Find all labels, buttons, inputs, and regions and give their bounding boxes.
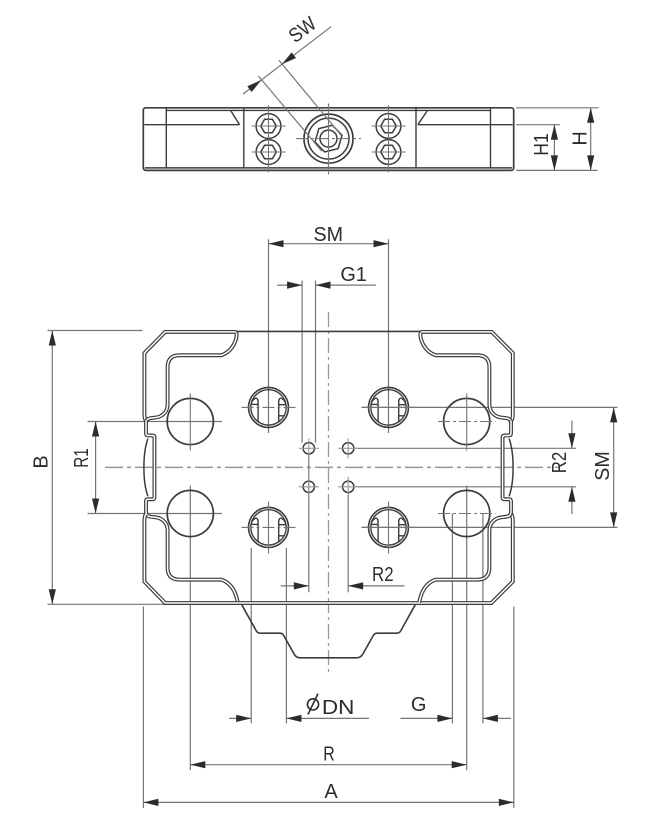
side view screw pair left — [256, 114, 281, 139]
crosshair top-left corner hole — [189, 393, 191, 450]
svg-text:R2: R2 — [372, 564, 394, 586]
ext line B bottom — [48, 603, 168, 605]
pilot hole bottom-right — [343, 481, 354, 492]
dimension G1 arrows — [287, 282, 302, 289]
side view vertical left boss edge — [243, 108, 245, 168]
pilot hole top-left — [303, 443, 314, 454]
svg-text:SM: SM — [314, 224, 344, 246]
svg-text:DN: DN — [322, 697, 355, 719]
plate inner contour top-right — [435, 355, 489, 404]
ext line DN left — [250, 548, 252, 724]
plate inner contour bottom-left — [168, 531, 222, 580]
side view vertical left block edge — [165, 108, 167, 168]
plate left slot arc — [144, 439, 148, 497]
ext line G right — [482, 514, 484, 724]
main vertical centerline — [328, 312, 330, 672]
dimension SW extension line 1 — [279, 60, 342, 135]
plate corner block top-right — [421, 332, 513, 421]
dimension SM top arrows — [269, 240, 284, 247]
plate S-curve bottom-right — [419, 580, 436, 603]
plate S-curve left-lower — [146, 512, 168, 531]
dimension SW line — [243, 27, 331, 94]
ext line SM right top — [362, 406, 618, 408]
svg-text:R: R — [323, 743, 335, 765]
side view plate outline — [143, 108, 513, 171]
svg-text:SM: SM — [592, 451, 614, 481]
mounting thread hole top-left — [249, 387, 289, 427]
ext line R2 bottom right — [347, 493, 349, 593]
side view inner bottom line — [145, 167, 512, 169]
pilot hole bottom-left — [303, 481, 314, 492]
dimension SM top line — [269, 243, 389, 245]
corner port hole bottom-left — [167, 490, 213, 536]
main horizontal centerline — [105, 466, 560, 468]
plate S-curve right-upper — [489, 404, 511, 423]
dimension H arrows — [587, 108, 594, 123]
ext line R1 top — [88, 421, 222, 423]
crosshair bottom-right corner hole — [438, 513, 496, 515]
dimension R2 right line — [571, 421, 573, 449]
side view left step chamfer — [231, 110, 240, 124]
dimension R2 right arrows — [568, 433, 575, 448]
dimension R2 bottom arrows — [294, 582, 309, 589]
ext line G1 right — [315, 281, 317, 443]
pilot hole top-right — [343, 443, 354, 454]
corner port hole top-right — [444, 398, 490, 444]
dimension SM right arrows — [610, 407, 617, 422]
plate top recess edge — [236, 330, 421, 332]
side view vertical right boss edge — [415, 108, 417, 168]
plate inner contour bottom-right — [435, 531, 489, 580]
ext line A right — [513, 607, 515, 808]
ext line G left — [451, 514, 453, 724]
ext line SM left column — [268, 239, 270, 433]
crosshair bottom-left thread hole — [268, 502, 270, 554]
crosshair top-right corner hole — [466, 393, 468, 450]
mounting thread hole bottom-left — [249, 507, 289, 547]
dimension G arrows — [437, 715, 452, 722]
plate S-curve bottom-left — [221, 580, 238, 603]
ext line R left — [189, 486, 191, 771]
corner port hole bottom-right — [444, 490, 490, 536]
dimension H1 extension line top — [516, 124, 560, 126]
ext line B top — [48, 330, 143, 332]
ext line R2 right bottom — [355, 486, 576, 488]
dimension H1 line — [553, 125, 555, 171]
plate right slot arc — [509, 439, 513, 497]
dimension R2 bottom line — [281, 585, 309, 587]
dimension H line — [590, 108, 592, 171]
dimension DN diameter symbol — [307, 699, 318, 710]
ext line DN right — [285, 548, 287, 724]
plate left slot mouth — [146, 420, 154, 515]
dimension H extension line top — [516, 107, 599, 109]
dimension R1 line — [95, 422, 97, 514]
dimension SM right line — [613, 407, 615, 527]
svg-text:B: B — [31, 455, 53, 468]
dimension B arrows — [49, 331, 56, 346]
dimension DN line — [229, 717, 251, 719]
plate S-curve right-lower — [489, 512, 511, 531]
dimension B line — [51, 331, 53, 605]
crosshair bottom-right thread hole — [388, 502, 390, 554]
ext line G1 left — [301, 281, 303, 443]
side view left step line — [144, 124, 239, 126]
corner port hole top-left — [167, 398, 213, 444]
svg-text:G: G — [411, 694, 427, 716]
plate S-curve top-left — [221, 332, 236, 355]
ext line SM right column — [388, 239, 390, 433]
svg-text:R2: R2 — [549, 452, 571, 474]
ext line A left — [142, 607, 144, 808]
ext line SM right bottom — [362, 526, 618, 528]
side view vertical centerline — [328, 104, 330, 175]
dimension DN arrows — [236, 715, 251, 722]
svg-text:G1: G1 — [340, 264, 367, 286]
mounting thread hole bottom-right — [369, 507, 409, 547]
dimension A arrows — [143, 799, 158, 806]
svg-text:H: H — [569, 131, 591, 145]
ext line R1 bottom — [88, 513, 222, 515]
ext line R2 bottom left — [308, 455, 310, 593]
plate S-curve top-right — [420, 332, 435, 355]
dimension R1 arrows — [92, 422, 99, 437]
dimension SW arrows — [282, 52, 296, 64]
svg-text:H1: H1 — [531, 133, 553, 156]
dimension R line — [190, 764, 466, 766]
plate bottom edge with chamfers — [144, 514, 512, 603]
dimension G line — [401, 717, 453, 719]
ext line R2 right top — [355, 447, 576, 449]
plate corner block top-left — [144, 332, 236, 421]
side view vertical right block edge — [490, 108, 492, 168]
side view screw pair right — [376, 114, 401, 139]
bottom tab outline — [242, 604, 416, 658]
svg-text:R1: R1 — [71, 448, 93, 468]
ext line R right — [466, 486, 468, 771]
svg-text:A: A — [324, 781, 338, 803]
dimension H1 arrows — [551, 125, 558, 140]
side view right step line — [418, 124, 513, 126]
side view chamfer edge line — [166, 109, 490, 111]
dimension R arrows — [190, 761, 205, 768]
mounting thread hole top-right — [369, 387, 409, 427]
dimension G1 line — [277, 284, 302, 286]
side view central hex plug — [304, 114, 353, 163]
plate inner contour top-left — [168, 355, 222, 404]
dimension A line — [143, 801, 513, 803]
plate right slot mouth — [503, 420, 511, 515]
plate S-curve left-upper — [146, 404, 168, 423]
side view right step chamfer — [418, 110, 428, 124]
dimension H1/H extension line bottom — [516, 169, 597, 171]
dimension SW extension line 2 — [258, 76, 322, 151]
